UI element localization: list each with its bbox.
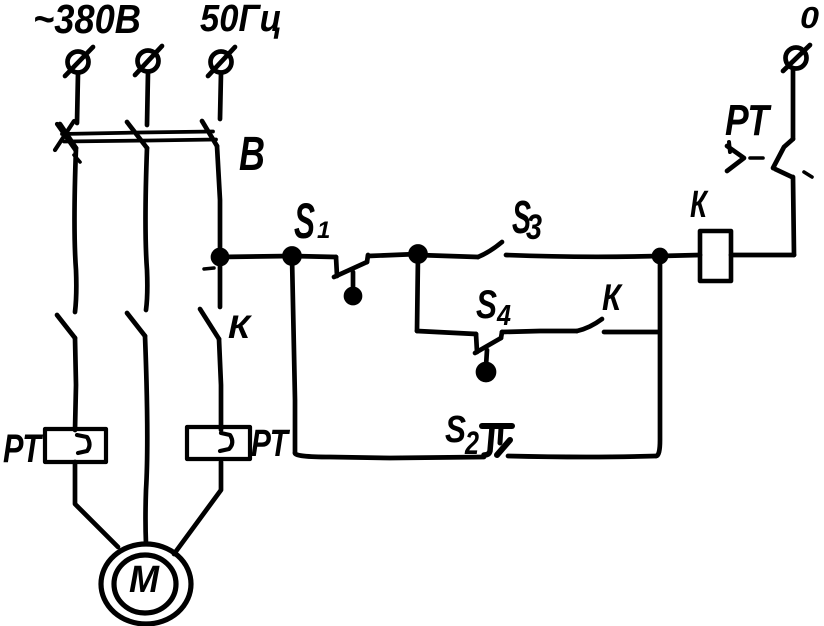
label K poles: [228, 309, 253, 345]
label B: [239, 128, 265, 181]
contact S3: [478, 242, 660, 257]
svg-text:4: 4: [496, 300, 511, 332]
contact K aux: [577, 319, 659, 332]
wire right vertical lower: [793, 177, 794, 255]
wire L3 to J1: [220, 256, 292, 257]
wire coil to right: [731, 253, 794, 258]
label ~380V: [33, 0, 141, 42]
svg-text:К: К: [602, 277, 623, 318]
wire J2 to S3: [418, 255, 478, 257]
label 0: [800, 0, 819, 35]
terminal L3: [208, 47, 235, 76]
svg-text:S: S: [294, 193, 315, 249]
svg-text:0: 0: [800, 0, 819, 35]
contactor K pole 1 contact: [57, 315, 76, 430]
coil K: [700, 231, 731, 281]
wire L1 middle: [75, 148, 77, 312]
node on L3: [213, 250, 227, 264]
node J2: [411, 247, 426, 262]
wire J2 down: [417, 255, 418, 331]
label S3: [512, 191, 542, 247]
wire L1 upper: [77, 73, 78, 123]
wire L2 upper: [147, 72, 148, 125]
svg-text:В: В: [239, 128, 265, 181]
wire to motor left: [75, 462, 118, 547]
label S2: [445, 409, 479, 461]
wire L3 lower-middle: [218, 257, 223, 307]
label K aux: [602, 277, 623, 318]
svg-text:~380В: ~380В: [33, 0, 141, 42]
wire J3 to coil: [660, 255, 700, 256]
pushbutton S4: [475, 332, 502, 380]
svg-text:50Гц: 50Гц: [200, 0, 282, 40]
switch B linkage bar: [55, 121, 216, 162]
wire L3 middle: [217, 146, 220, 257]
wire L3 upper: [220, 73, 221, 119]
contact RT NC: [727, 139, 812, 177]
svg-text:К: К: [690, 184, 709, 226]
terminal 0: [783, 45, 810, 71]
label RT left: [3, 427, 44, 471]
wire RT to terminal 0: [791, 69, 796, 139]
node J3: [654, 250, 666, 262]
svg-text:S: S: [476, 283, 497, 327]
svg-text:РТ: РТ: [251, 423, 290, 465]
svg-text:К: К: [228, 309, 253, 345]
label RT middle: [251, 423, 290, 465]
label S1: [294, 193, 330, 249]
wire S4 to K aux: [502, 331, 577, 332]
label RT right: [725, 96, 772, 145]
label K coil: [690, 184, 709, 226]
wire S2 bottom left: [295, 453, 484, 458]
wire to motor right: [174, 462, 221, 554]
contactor K pole 2 contact: [127, 313, 147, 544]
label S4: [476, 283, 511, 332]
svg-text:РТ: РТ: [725, 96, 772, 145]
svg-text:S: S: [445, 409, 466, 451]
motor M: [101, 544, 191, 624]
svg-text:2: 2: [464, 425, 479, 461]
contact S2: [482, 426, 512, 455]
terminal L1: [65, 47, 93, 76]
label 50Hz: [200, 0, 282, 40]
wire J1 to S1: [292, 256, 336, 257]
thermal relay RT heater 2: [187, 427, 250, 459]
wire right branch vertical: [656, 256, 660, 456]
wire J1 down: [292, 257, 295, 453]
svg-text:1: 1: [317, 217, 330, 244]
contactor K pole 3 contact: [200, 309, 221, 430]
wire L2 middle: [146, 148, 148, 310]
node J1: [285, 249, 300, 264]
svg-text:М: М: [129, 559, 160, 601]
wire S1 to J2: [368, 254, 418, 256]
switch B pole 1 blade: [60, 124, 76, 148]
pushbutton S1: [334, 255, 368, 303]
wire S2 bottom right: [508, 456, 656, 457]
tick minus: [204, 268, 214, 269]
svg-text:3: 3: [526, 208, 542, 247]
svg-text:РТ: РТ: [3, 427, 44, 471]
switch B pole 3 blade: [202, 121, 217, 146]
switch B pole 2 blade: [127, 122, 147, 148]
thermal relay RT heater 1: [45, 429, 106, 462]
terminal L2: [135, 46, 162, 75]
wire lower branch left: [417, 331, 476, 334]
